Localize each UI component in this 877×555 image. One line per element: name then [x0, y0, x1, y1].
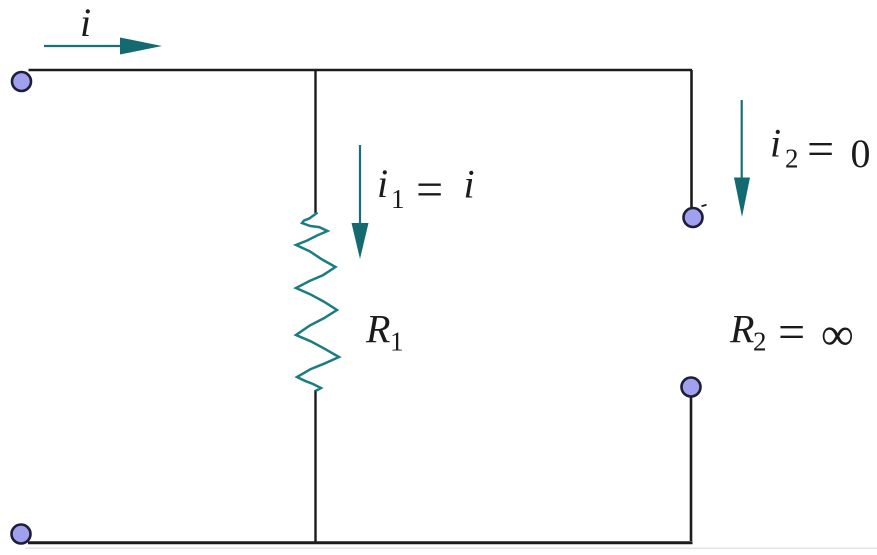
svg-text:1: 1: [390, 327, 404, 357]
wire top horizontal: [29, 69, 693, 72]
wire middle branch lower: [314, 390, 316, 543]
svg-text:R: R: [365, 307, 390, 352]
svg-text:1: 1: [391, 184, 405, 214]
svg-text:i: i: [770, 121, 781, 166]
wire right branch lower: [690, 397, 693, 541]
terminal right lower: [682, 378, 701, 397]
scan artifact line bottom: [25, 547, 877, 549]
terminal right upper: [684, 208, 703, 227]
label R2 = infinity: [729, 306, 854, 359]
svg-text:2: 2: [785, 144, 799, 174]
resistor R1: [296, 213, 339, 392]
svg-text:=: =: [804, 123, 836, 176]
wire right branch upper: [690, 70, 693, 207]
terminal bottom-left: [12, 525, 31, 544]
svg-text:R: R: [729, 307, 754, 352]
svg-text:i: i: [80, 0, 91, 45]
terminal top-left: [12, 72, 31, 91]
stray tick near right upper terminal: [702, 205, 707, 206]
svg-text:i: i: [377, 161, 388, 206]
current arrow i (top): [44, 38, 162, 55]
label i1 = i: [377, 161, 475, 216]
current arrow i2: [734, 100, 750, 217]
svg-text:0: 0: [851, 131, 871, 176]
svg-text:∞: ∞: [821, 309, 854, 360]
label i2 = 0: [770, 121, 871, 177]
current arrow i1: [352, 145, 369, 259]
svg-text:i: i: [464, 162, 475, 207]
wire bottom horizontal: [28, 541, 693, 544]
svg-text:2: 2: [753, 327, 767, 357]
wire middle branch upper: [314, 70, 316, 213]
label R1: [365, 307, 404, 357]
svg-text:=: =: [775, 306, 807, 359]
svg-text:=: =: [413, 163, 445, 216]
